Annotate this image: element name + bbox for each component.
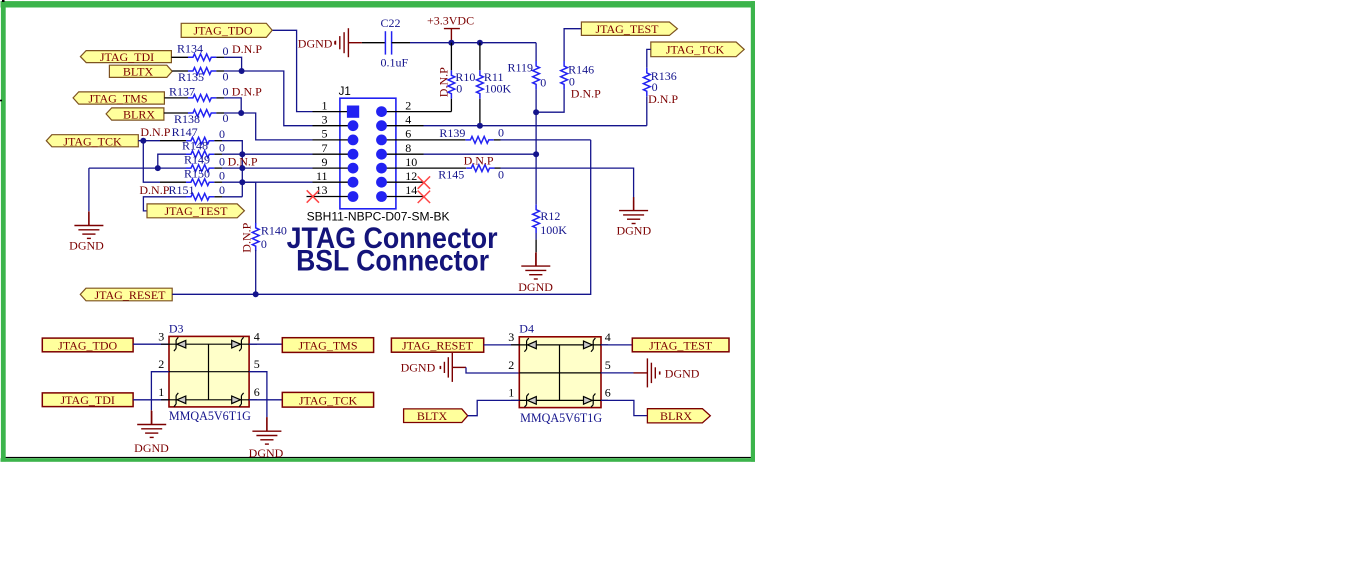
- svg-text:+3.3VDC: +3.3VDC: [427, 14, 474, 28]
- wire TDI to D3 pin1: [133, 399, 169, 401]
- svg-text:R149: R149: [184, 153, 210, 167]
- svg-text:0: 0: [219, 127, 225, 141]
- svg-text:4: 4: [405, 112, 411, 126]
- svg-text:R139: R139: [439, 126, 465, 140]
- svg-text:8: 8: [405, 141, 411, 155]
- svg-text:3: 3: [158, 329, 164, 343]
- flag JTAG_RESET: [80, 288, 172, 302]
- junction node R11 bottom: [477, 123, 483, 129]
- svg-text:6: 6: [254, 385, 260, 399]
- resistor R149: [184, 153, 258, 172]
- wire pin11 row to R140 vertical: [242, 182, 255, 224]
- resistor R137: [164, 84, 262, 101]
- svg-text:1: 1: [158, 385, 164, 399]
- svg-text:3: 3: [322, 112, 328, 126]
- flag JTAG_TDO: [181, 23, 272, 37]
- svg-text:DGND: DGND: [249, 446, 284, 460]
- port JTAG_TEST bottom: [632, 338, 729, 352]
- wire D3 pin4 to JTAG_TMS: [249, 343, 282, 345]
- svg-text:4: 4: [605, 330, 611, 344]
- wire D4 pin5 to DGND: [601, 372, 634, 374]
- svg-text:D4: D4: [519, 322, 534, 336]
- svg-text:0: 0: [219, 141, 225, 155]
- junction node pin7 row: [239, 151, 245, 157]
- resistor R11: [477, 43, 512, 126]
- svg-text:JTAG_TDI: JTAG_TDI: [61, 393, 115, 407]
- svg-text:R135: R135: [178, 70, 204, 84]
- junction node pin9 row: [239, 165, 245, 171]
- svg-text:R150: R150: [184, 167, 210, 181]
- wire R151 out: [222, 196, 242, 198]
- svg-text:0: 0: [261, 237, 267, 251]
- svg-text:6: 6: [405, 127, 411, 141]
- port JTAG_TCK bottom: [282, 392, 373, 407]
- wire J1 pin8 to R12 node: [424, 153, 537, 155]
- svg-text:C22: C22: [381, 16, 401, 30]
- ground DGND left: [69, 168, 104, 252]
- svg-text:0: 0: [219, 183, 225, 197]
- svg-text:JTAG_TCK: JTAG_TCK: [63, 134, 122, 148]
- resistor R138: [164, 110, 229, 127]
- svg-text:JTAG_TMS: JTAG_TMS: [88, 92, 147, 106]
- svg-text:JTAG_TDI: JTAG_TDI: [100, 50, 154, 64]
- svg-text:JTAG_TEST: JTAG_TEST: [595, 22, 659, 36]
- junction node pin8 R12: [533, 151, 539, 157]
- ground DGND D3 pin2: [134, 410, 169, 455]
- wire R10 to J1 pin2: [424, 111, 452, 113]
- green frame: [0, 0, 755, 462]
- svg-text:R148: R148: [182, 139, 208, 153]
- capacitor C22: [362, 16, 410, 69]
- junction node R137/R138: [238, 110, 244, 116]
- svg-text:D.N.P: D.N.P: [436, 67, 450, 97]
- svg-text:D.N.P: D.N.P: [239, 222, 253, 252]
- no-connect X pin12: [418, 176, 430, 188]
- resistor R135: [172, 68, 228, 85]
- flag JTAG_TCK top: [651, 42, 744, 57]
- wire JTAG_TCK node: [138, 140, 160, 142]
- flag JTAG_TEST top: [581, 22, 677, 36]
- ground DGND D4 pin5 sideways: [634, 358, 700, 387]
- junction node JTAG_RESET row: [253, 291, 259, 297]
- svg-text:BLRX: BLRX: [123, 108, 155, 122]
- port JTAG_RESET: [391, 338, 483, 353]
- svg-text:DGND: DGND: [616, 224, 651, 238]
- svg-text:10: 10: [405, 155, 417, 169]
- svg-text:R134: R134: [177, 41, 203, 55]
- wire R151 input from JTAG_TEST: [143, 197, 186, 211]
- svg-text:JTAG_TCK: JTAG_TCK: [666, 43, 725, 57]
- wire R148 input: [158, 154, 186, 168]
- svg-text:6: 6: [605, 386, 611, 400]
- resistor R119: [507, 43, 546, 113]
- wire R140 to JTAG_RESET row: [255, 250, 257, 294]
- svg-text:JTAG_TEST: JTAG_TEST: [164, 204, 228, 218]
- wire R134 out to R135 node: [224, 57, 242, 71]
- svg-text:JTAG_TMS: JTAG_TMS: [298, 339, 357, 353]
- wire R146 bottom link: [536, 89, 564, 112]
- svg-text:2: 2: [158, 357, 164, 371]
- connector J1: [307, 86, 451, 224]
- resistor R136: [643, 49, 678, 125]
- svg-text:JTAG_TCK: JTAG_TCK: [299, 393, 358, 407]
- svg-text:D.N.P: D.N.P: [648, 92, 678, 106]
- ground DGND D3 pin5: [249, 417, 284, 460]
- svg-text:0: 0: [456, 82, 462, 96]
- resistor R139: [424, 126, 505, 144]
- resistor R12: [533, 205, 568, 253]
- resistor R146: [561, 29, 601, 101]
- svg-text:R137: R137: [169, 84, 195, 98]
- svg-text:0: 0: [223, 44, 229, 58]
- power +3.3VDC: [427, 14, 474, 43]
- svg-text:1: 1: [508, 386, 514, 400]
- flag JTAG_TCK: [46, 134, 138, 148]
- wire R149 input from DGND: [89, 167, 186, 169]
- no-connect X pin13: [307, 190, 319, 202]
- wire RESET to D4 pin3: [484, 344, 520, 346]
- wire JTAG_TDO to J1 pin1: [272, 30, 312, 111]
- svg-text:12: 12: [405, 169, 417, 183]
- junction node R134/R135: [239, 68, 245, 74]
- svg-text:BLTX: BLTX: [123, 65, 154, 79]
- svg-text:DGND: DGND: [134, 441, 169, 455]
- resistor R134: [171, 41, 262, 60]
- resistor R150: [160, 167, 225, 186]
- title JTAG Connector: [287, 222, 498, 255]
- svg-text:JTAG_RESET: JTAG_RESET: [94, 288, 166, 302]
- ground DGND top left sideways: [298, 28, 362, 57]
- svg-text:R140: R140: [261, 224, 287, 238]
- svg-text:D.N.P: D.N.P: [464, 153, 494, 167]
- svg-text:BLTX: BLTX: [417, 409, 448, 423]
- svg-text:0: 0: [219, 155, 225, 169]
- svg-text:0: 0: [219, 169, 225, 183]
- junction node JTAG_TCK: [140, 138, 146, 144]
- svg-text:R147: R147: [172, 125, 198, 139]
- flag BLRX: [106, 108, 164, 122]
- svg-text:R119: R119: [507, 61, 533, 75]
- svg-text:0: 0: [223, 84, 229, 98]
- wire TCK node down to R150: [143, 141, 160, 183]
- no-connect X pin14: [418, 191, 430, 203]
- wire D4 pin6 to BLRX: [601, 400, 647, 415]
- svg-text:5: 5: [254, 357, 260, 371]
- flag JTAG_TMS: [73, 92, 164, 106]
- svg-text:13: 13: [316, 183, 328, 197]
- wire R148 out to J1 pin7: [222, 153, 313, 155]
- wire node to J1 pin5: [224, 113, 313, 140]
- ground DGND D4 pin2 sideways: [401, 353, 466, 382]
- svg-text:4: 4: [254, 329, 260, 343]
- port JTAG_TMS: [282, 338, 373, 353]
- svg-text:1: 1: [322, 98, 328, 112]
- wire R12 vertical: [535, 112, 537, 204]
- svg-text:5: 5: [322, 127, 328, 141]
- svg-text:BSL Connector: BSL Connector: [296, 245, 489, 278]
- svg-text:0: 0: [540, 76, 546, 90]
- resistor R145: [424, 153, 505, 181]
- port JTAG_TDI bottom: [42, 393, 133, 407]
- sheet border line: [4, 457, 751, 458]
- resistor R10: [436, 43, 475, 112]
- wire R137 out to R138 node: [224, 98, 241, 113]
- svg-text:0.1uF: 0.1uF: [381, 55, 409, 69]
- wire R150 out to J1 pin11: [222, 181, 313, 183]
- ground DGND right of R145: [616, 197, 651, 238]
- wire D4 pin2: [466, 367, 519, 373]
- resistor R151: [139, 183, 225, 200]
- svg-text:R12: R12: [540, 209, 560, 223]
- wire BLTX to D4 pin1: [468, 400, 520, 415]
- wire C22 to rail: [410, 42, 536, 44]
- svg-text:D.N.P: D.N.P: [139, 183, 169, 197]
- junction node pin11 row: [239, 179, 245, 185]
- diode array D3: [158, 321, 259, 423]
- wire R145 out to DGND: [501, 168, 634, 200]
- svg-text:J1: J1: [339, 86, 351, 98]
- svg-text:D.N.P: D.N.P: [140, 125, 170, 139]
- svg-text:DGND: DGND: [665, 366, 700, 380]
- title BSL Connector: [296, 245, 489, 278]
- diode array D4: [508, 322, 611, 426]
- svg-text:100K: 100K: [485, 82, 512, 96]
- junction node R148 branch: [155, 165, 161, 171]
- svg-text:JTAG_TDO: JTAG_TDO: [58, 338, 117, 352]
- wire D3 pin5 to DGND: [249, 372, 267, 417]
- junction node +3.3VDC: [448, 40, 454, 46]
- svg-text:2: 2: [405, 98, 411, 112]
- svg-text:5: 5: [605, 358, 611, 372]
- svg-text:100K: 100K: [540, 223, 567, 237]
- flag BLTX bottom: [404, 409, 468, 423]
- wire D3 pin2 to DGND: [151, 372, 169, 411]
- svg-text:11: 11: [316, 169, 328, 183]
- svg-text:3: 3: [508, 330, 514, 344]
- wire JTAG_RESET row: [172, 140, 591, 294]
- flag BLTX: [109, 65, 172, 79]
- svg-text:D3: D3: [169, 321, 184, 335]
- svg-text:2: 2: [508, 358, 514, 372]
- resistor R148: [182, 139, 225, 158]
- svg-text:D.N.P: D.N.P: [571, 87, 601, 101]
- junction node R11 top: [477, 40, 483, 46]
- svg-text:0: 0: [498, 126, 504, 140]
- svg-text:BLRX: BLRX: [660, 409, 692, 423]
- wire R139 out to loop: [501, 139, 591, 141]
- svg-text:JTAG_TEST: JTAG_TEST: [649, 338, 713, 352]
- svg-text:0: 0: [498, 168, 504, 182]
- port JTAG_TDO bottom: [42, 338, 133, 352]
- svg-text:DGND: DGND: [298, 36, 333, 50]
- wire R147 out down common: [222, 141, 242, 197]
- svg-text:DGND: DGND: [69, 238, 104, 252]
- svg-text:D.N.P: D.N.P: [232, 42, 262, 56]
- svg-text:R145: R145: [438, 168, 464, 182]
- ground DGND below R12: [518, 252, 553, 294]
- svg-text:7: 7: [322, 141, 328, 155]
- flag JTAG_TEST left: [147, 204, 244, 218]
- wire D3 pin6 to JTAG_TCK: [249, 399, 282, 401]
- wire node to J1 pin3: [224, 71, 313, 126]
- svg-text:14: 14: [405, 183, 417, 197]
- wire D4 pin4 to JTAG_TEST: [601, 344, 632, 346]
- svg-text:JTAG_TDO: JTAG_TDO: [193, 24, 252, 38]
- wire R149 out to J1 pin9: [222, 167, 313, 169]
- svg-text:DGND: DGND: [518, 280, 553, 294]
- wire TDO to D3 pin3: [133, 343, 169, 345]
- svg-text:DGND: DGND: [401, 361, 436, 375]
- svg-text:D.N.P: D.N.P: [232, 84, 262, 98]
- resistor R140: [239, 222, 287, 252]
- flag BLRX bottom: [647, 409, 710, 424]
- junction node R119 bottom: [533, 109, 539, 115]
- resistor R147: [140, 125, 225, 144]
- svg-text:MMQA5V6T1G: MMQA5V6T1G: [520, 410, 602, 425]
- svg-text:R151: R151: [169, 183, 195, 197]
- flag JTAG_TDI: [80, 50, 171, 64]
- svg-text:JTAG_RESET: JTAG_RESET: [402, 339, 474, 353]
- svg-text:9: 9: [322, 155, 328, 169]
- svg-text:MMQA5V6T1G: MMQA5V6T1G: [169, 408, 251, 423]
- wire J1 pin4 row to R136: [424, 125, 647, 127]
